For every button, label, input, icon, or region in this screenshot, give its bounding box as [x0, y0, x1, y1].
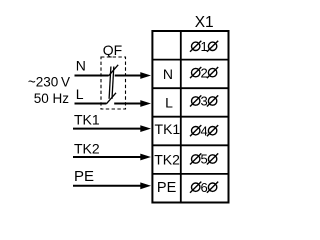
- svg-text:TK1: TK1: [155, 121, 181, 137]
- svg-text:X1: X1: [195, 14, 214, 31]
- svg-text:3: 3: [200, 94, 207, 109]
- svg-text:TK2: TK2: [154, 151, 180, 167]
- svg-text:TK2: TK2: [74, 140, 100, 156]
- svg-text:PE: PE: [74, 168, 94, 185]
- svg-text:5: 5: [200, 152, 207, 167]
- svg-text:N: N: [76, 58, 86, 74]
- svg-text:QF: QF: [103, 42, 122, 58]
- svg-text:PE: PE: [157, 180, 177, 196]
- svg-text:L: L: [76, 86, 84, 102]
- svg-text:N: N: [163, 66, 173, 82]
- svg-text:6: 6: [200, 180, 207, 195]
- svg-text:50 Hz: 50 Hz: [34, 91, 70, 106]
- svg-text:2: 2: [200, 65, 207, 80]
- svg-text:TK1: TK1: [74, 112, 100, 128]
- svg-text:~230 V: ~230 V: [28, 75, 70, 90]
- svg-text:1: 1: [200, 39, 207, 54]
- svg-text:4: 4: [200, 123, 207, 138]
- svg-text:L: L: [165, 94, 173, 110]
